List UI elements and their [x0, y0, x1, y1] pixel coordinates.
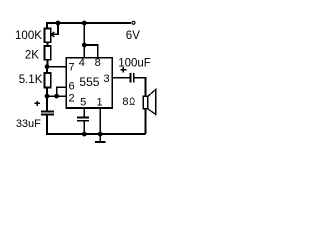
svg-text:Ω: Ω — [129, 94, 135, 107]
node R2/R3/pin7 — [45, 64, 50, 69]
svg-text:5.1K: 5.1K — [19, 74, 43, 86]
node pin4/pin8 tie — [82, 43, 87, 48]
wire node to pin 7 — [47, 66, 66, 68]
svg-text:2K: 2K — [25, 49, 39, 61]
svg-text:7: 7 — [68, 61, 74, 73]
wire rail to pin4/8 — [83, 23, 85, 58]
node wiper junction — [56, 21, 61, 26]
node pin1/rail — [98, 132, 103, 137]
node pin6 tie — [54, 94, 59, 99]
wire C3 to speaker — [134, 78, 145, 97]
wire pin5 to C2 — [83, 108, 85, 117]
svg-text:555: 555 — [79, 75, 99, 89]
wire pin8 branch — [84, 45, 97, 58]
svg-text:3: 3 — [103, 73, 109, 85]
resistor R3 5.1K — [44, 73, 50, 88]
6V terminal — [132, 21, 135, 24]
wire R2 to node — [47, 60, 49, 67]
op-amp U1 555 body — [66, 58, 112, 108]
capacitor C2 (pin 5) — [77, 117, 89, 119]
svg-text:33uF: 33uF — [16, 118, 41, 130]
svg-text:100K: 100K — [15, 30, 42, 42]
capacitor C3 plus sign — [121, 69, 127, 71]
svg-text:5: 5 — [80, 97, 86, 109]
node Vcc junction — [82, 21, 87, 26]
svg-text:100uF: 100uF — [118, 57, 151, 69]
svg-text:8: 8 — [95, 57, 101, 69]
svg-text:6V: 6V — [126, 30, 140, 42]
wire pin3 to C3 — [112, 77, 130, 79]
wire node to R3 — [46, 67, 48, 74]
wire pot wiper — [52, 23, 58, 34]
svg-text:4: 4 — [79, 57, 85, 69]
wire C1 to bottom rail — [46, 115, 48, 134]
svg-text:1: 1 — [96, 97, 102, 109]
wire node to pin2 — [47, 95, 66, 97]
capacitor C1 33uF — [41, 111, 54, 113]
svg-text:6: 6 — [68, 81, 74, 93]
wire speaker to rail — [145, 109, 147, 134]
resistor R1 100K potentiometer — [44, 28, 50, 42]
resistor R2 2K — [44, 46, 50, 60]
wire node to C1 — [46, 96, 48, 111]
wire top rail — [47, 23, 131, 29]
speaker LS1 — [143, 96, 148, 109]
ground — [99, 134, 101, 142]
wire pin6 tie riser — [57, 87, 67, 96]
wire R3 to node — [46, 88, 48, 97]
node C2/rail — [82, 132, 87, 137]
node R3/C1/pin2 — [45, 94, 50, 99]
capacitor C3 100uF — [129, 73, 131, 83]
wire bottom rail — [46, 133, 145, 135]
svg-text:2: 2 — [68, 92, 74, 104]
wire pot to R2 — [47, 42, 49, 46]
wire C2 to rail — [83, 121, 85, 134]
svg-text:8: 8 — [122, 96, 128, 108]
wire pin1 to rail — [99, 108, 101, 134]
capacitor C1 33uF plus sign — [35, 102, 40, 104]
